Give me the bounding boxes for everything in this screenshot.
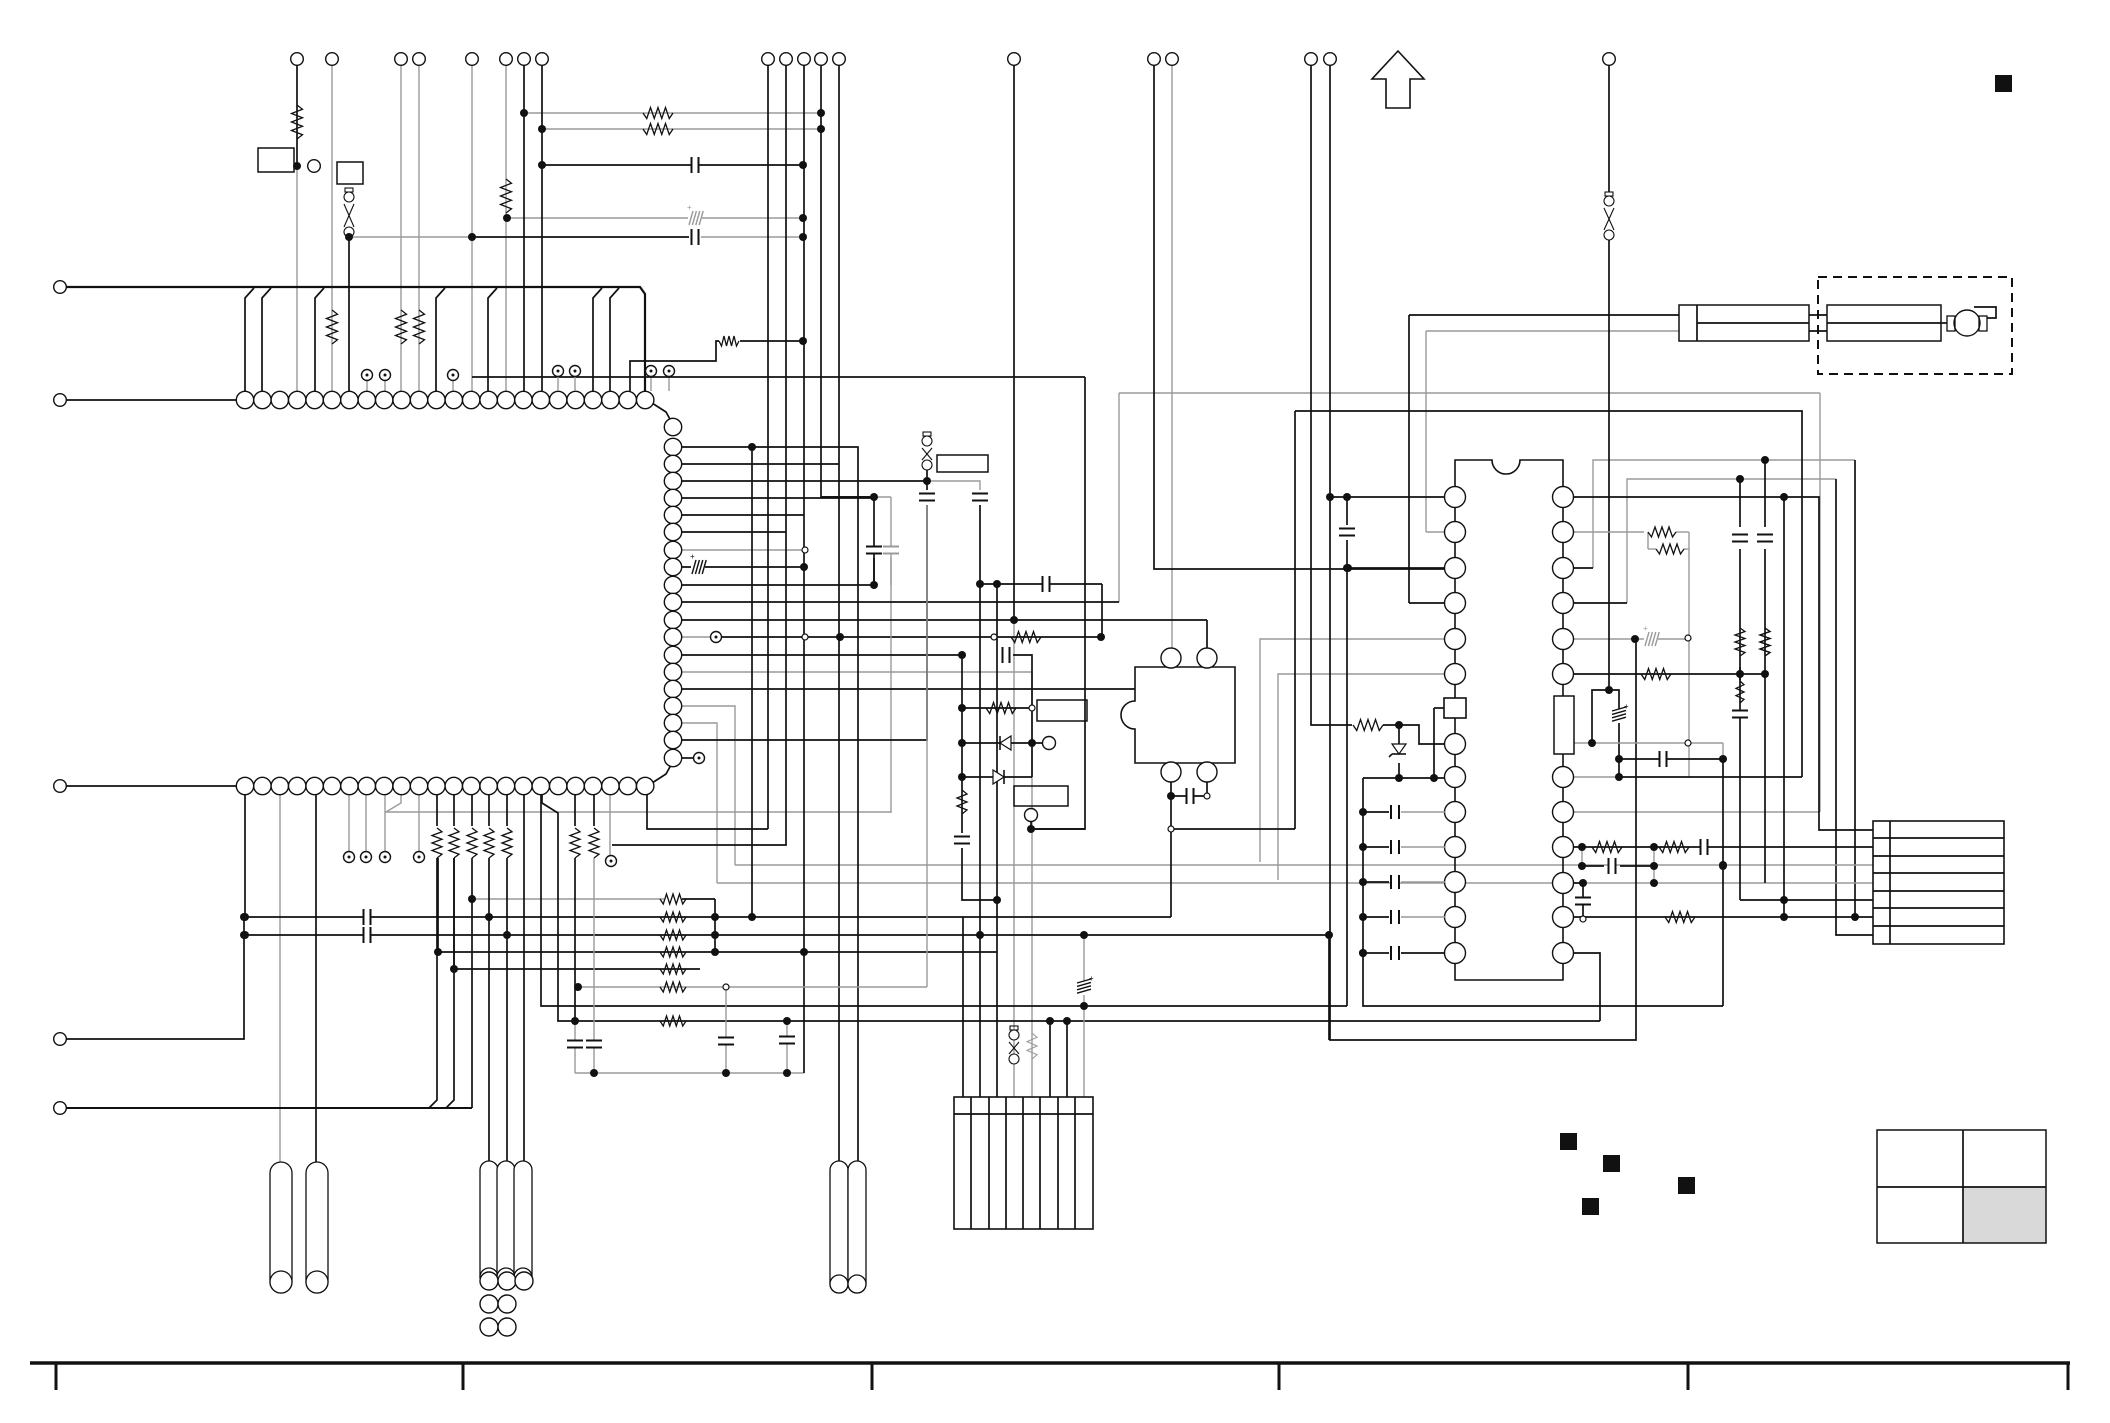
wire pin532 left	[1426, 531, 1445, 533]
resistor below row2	[484, 828, 494, 858]
wire x752	[751, 447, 753, 917]
node open	[1685, 740, 1691, 746]
wire y796	[1171, 795, 1204, 797]
capacitor cylinder CL1	[270, 1162, 292, 1293]
wire p758	[682, 757, 694, 759]
wire y829b	[1031, 828, 1085, 830]
wire x576r	[574, 858, 576, 1021]
wire p620	[682, 619, 1207, 621]
wire pin639R	[1574, 638, 1689, 640]
connector CN middle	[954, 1097, 1093, 1229]
wire railcap R	[1401, 811, 1445, 813]
capacitor cylinder CM1	[830, 1161, 848, 1293]
capacitor rail cap	[1390, 910, 1392, 924]
IC1 right pins	[1553, 487, 1574, 508]
capacitor C656	[1002, 647, 1004, 663]
motor hook	[1974, 307, 1996, 318]
label box R1	[258, 148, 294, 172]
wire pin568L	[1348, 567, 1445, 569]
resistor R847b	[1659, 842, 1689, 853]
bottom tick	[462, 1363, 465, 1390]
resistor bank	[660, 947, 686, 957]
wire v2 top	[1627, 479, 1836, 603]
wire x927c	[926, 740, 928, 987]
ribbon cable B	[1827, 305, 1941, 341]
wire term804	[803, 65, 805, 1073]
test points row1	[362, 370, 373, 381]
wire railcap L	[1363, 916, 1389, 918]
wire p447	[682, 446, 752, 448]
wire y987	[578, 986, 927, 988]
wire col pin706	[682, 706, 735, 865]
wire rr2r2	[1688, 532, 1690, 549]
wire y778	[1363, 777, 1445, 779]
wire x507c	[506, 935, 508, 1161]
wire row4 gray	[717, 882, 1873, 884]
wire pin603R	[1574, 602, 1627, 604]
wire br1609a	[1592, 690, 1609, 743]
wire x1583	[1582, 883, 1584, 919]
wire x507r	[506, 858, 508, 935]
wire gray box top	[1119, 392, 1820, 394]
capacitor C759	[1659, 751, 1661, 767]
wire y480b	[927, 481, 980, 490]
resistor below row2	[467, 828, 477, 858]
wire x962	[961, 655, 963, 833]
svg-text:+: +	[687, 203, 692, 212]
trimmer RV4	[1605, 192, 1613, 196]
wire tp row2c	[384, 795, 386, 851]
tp stub b	[574, 377, 576, 391]
connector column pins	[664, 418, 681, 435]
tp col2	[694, 753, 705, 764]
node open	[1580, 916, 1586, 922]
wire rail1363	[1362, 778, 1364, 953]
junction rail dot	[1359, 843, 1367, 851]
wire x715	[714, 899, 716, 952]
capacitor C866	[1608, 858, 1610, 874]
wire pin953R	[1574, 953, 1600, 1021]
wire term839	[838, 65, 840, 1161]
trimmer RV2	[923, 432, 931, 436]
node open	[991, 634, 997, 640]
resistor below row2	[449, 828, 459, 858]
wire railcap R	[1401, 881, 1445, 883]
bus entry	[262, 288, 271, 391]
connector row2 pins	[236, 777, 253, 794]
wire term821	[821, 65, 874, 497]
capacitor C891	[883, 548, 899, 553]
bus entry	[610, 288, 619, 391]
IC1 left pins	[1445, 487, 1466, 508]
op-amp IC1 body	[1455, 460, 1563, 980]
resistor bank	[660, 894, 686, 904]
bend col-row2	[652, 765, 671, 783]
black square top	[1995, 75, 2012, 92]
bottom tick	[1278, 1363, 1281, 1390]
wire y129 gray	[542, 128, 821, 130]
resistor R1032	[1027, 1033, 1037, 1059]
wire x980b	[979, 935, 981, 1097]
capacitor y165	[691, 157, 693, 173]
bus entry	[315, 288, 324, 391]
wire vcc corner	[1854, 460, 1856, 917]
wire x1723	[1722, 759, 1724, 1006]
terminal near R1	[308, 160, 321, 173]
wire jog401	[386, 795, 401, 812]
resistor row1 a	[327, 310, 338, 344]
wire y341	[740, 340, 803, 342]
wire d1	[962, 742, 1042, 744]
resistor R917	[1665, 912, 1695, 923]
wire term332 gray	[331, 65, 333, 391]
wire y165	[542, 164, 803, 166]
capacitor cylinder CM2	[848, 1161, 866, 1293]
node open	[1168, 826, 1174, 832]
black square marker	[1582, 1198, 1599, 1215]
wire tp row1e	[668, 377, 670, 391]
wire y759	[1619, 758, 1723, 760]
resistor R708	[986, 703, 1016, 714]
ecap GND1084	[1077, 981, 1091, 995]
wire x575c	[574, 1021, 576, 1073]
wire 1740c	[1739, 667, 1741, 680]
node open	[802, 634, 808, 640]
bus left top	[66, 287, 645, 391]
wire x245 up	[244, 795, 246, 917]
wire p740	[682, 505, 927, 740]
capacitor C917	[363, 909, 365, 925]
wire x980	[979, 505, 981, 935]
wire y743gray	[1574, 742, 1723, 744]
resistor R674	[1641, 669, 1671, 680]
wire pin497R	[1574, 497, 1873, 830]
wire p585	[682, 584, 874, 586]
junction rail dot	[1359, 808, 1367, 816]
wire x1765b	[1764, 549, 1766, 883]
wire term1311	[1311, 65, 1352, 725]
connector CN right	[1873, 821, 2004, 944]
wire VREF right	[1574, 811, 1820, 813]
wire pin672	[682, 671, 1032, 673]
capacitor rail cap	[1390, 875, 1392, 889]
wire x1050	[1049, 1021, 1051, 1097]
wire Lwire	[630, 341, 719, 391]
wire railcap R	[1401, 846, 1445, 848]
wire term786	[612, 65, 786, 845]
wire p567	[682, 566, 804, 568]
ecap C639	[1644, 632, 1658, 646]
node open	[1204, 793, 1210, 799]
trimmer RV3	[1010, 1026, 1018, 1030]
wire term419 gray	[418, 65, 420, 391]
wire p532	[682, 531, 786, 533]
resistor below row2	[570, 828, 580, 858]
wire p498	[682, 497, 874, 499]
wire d2	[962, 776, 1032, 778]
dashed box	[1818, 277, 2012, 374]
wire y829L	[647, 795, 768, 829]
wire y1021	[542, 795, 1600, 1021]
wire y952	[438, 951, 997, 953]
wire tp row1d	[650, 377, 652, 391]
wire tp row2e	[609, 795, 611, 855]
bus2 entry	[471, 858, 473, 1108]
wire rr2r	[1676, 531, 1689, 533]
wire x1295	[1294, 411, 1296, 829]
resistor R725	[1353, 720, 1383, 731]
wire y584	[980, 583, 1102, 585]
wire zenerline2	[1398, 763, 1400, 778]
wire term401 gray	[400, 65, 402, 391]
wire x1084	[1083, 935, 1085, 1097]
wire railcap R	[1401, 952, 1445, 954]
link AB2	[1809, 330, 1827, 332]
wire x1085	[1031, 377, 1085, 829]
wire x1740	[1739, 479, 1741, 527]
wire x1582c	[1581, 847, 1583, 866]
resistor below row2	[589, 828, 599, 858]
black square marker	[1678, 1177, 1695, 1194]
wire pin497L	[1330, 496, 1445, 498]
wire pin532 up	[1425, 331, 1427, 532]
capacitor C796	[1186, 788, 1188, 804]
wire x1723g	[1722, 743, 1724, 759]
resistor R1740	[1735, 628, 1745, 656]
wire x857cyl	[856, 446, 858, 448]
wire x349	[348, 240, 350, 391]
resistor y113	[643, 108, 673, 119]
wire term542	[541, 65, 543, 391]
wire rr2link2	[1648, 548, 1656, 550]
table	[1963, 1187, 2046, 1243]
wire row2 stub	[453, 795, 455, 826]
capacitor C593	[586, 1042, 602, 1047]
capacitor cylinder CL2	[306, 1162, 328, 1293]
wire pin744j	[1383, 725, 1445, 744]
wire x316cyl	[315, 795, 317, 1162]
resistor R532a	[1648, 527, 1676, 537]
wire vcc top	[1593, 460, 1855, 568]
cap y866 wire	[1582, 865, 1604, 867]
wire term297 gray	[296, 166, 298, 391]
junction dots	[293, 162, 301, 170]
wire pin532R	[1574, 531, 1644, 533]
bottom tick	[2067, 1363, 2070, 1390]
wire term1154	[1154, 65, 1445, 569]
wire x1102	[1101, 584, 1103, 637]
wire tp row1a	[366, 380, 368, 391]
label D2	[1014, 786, 1068, 806]
capacitor C980	[972, 495, 988, 500]
wire tp stubs row2a	[348, 795, 350, 851]
capacitor y237	[691, 229, 693, 245]
wire y569d	[1347, 567, 1349, 569]
wire tp row1b	[384, 380, 386, 391]
resistor y637	[1011, 632, 1041, 643]
wire y1006a	[541, 795, 1347, 1006]
capacitor C584	[1042, 576, 1044, 592]
resistor row1 b	[396, 310, 407, 344]
capacitor C1583	[1575, 899, 1591, 904]
wire pin847R	[1574, 846, 1873, 848]
resistor R1765b	[1760, 628, 1770, 656]
capacitor Cx962	[954, 838, 970, 843]
wire y829r	[1171, 828, 1295, 830]
wire x1434	[1433, 708, 1435, 778]
wire pin639L	[1260, 639, 1445, 862]
wire y1073 gray	[575, 1072, 804, 1074]
wire y969	[454, 968, 700, 970]
resistor top R1	[292, 105, 303, 139]
wire col pin723	[682, 723, 717, 883]
wire term297 top	[296, 65, 298, 166]
wire x1014 low	[1013, 620, 1015, 1097]
wire br1609b	[1609, 690, 1619, 777]
wire railcap L	[1363, 846, 1389, 848]
junction rail dot	[1359, 878, 1367, 886]
junction rail dot	[1359, 949, 1367, 957]
wire p481	[682, 480, 927, 482]
zener ZD1	[1392, 744, 1406, 754]
wire zenerline	[1398, 725, 1400, 744]
trimmer RV1	[345, 188, 353, 192]
tp mid	[1025, 809, 1038, 822]
capacitor C1740	[1732, 536, 1748, 541]
wire pin777Rb	[1619, 776, 1802, 778]
wire rr2link	[1647, 532, 1649, 549]
capacitor C575	[567, 1042, 583, 1047]
capacitor Cx1347	[1339, 530, 1355, 535]
top terminals	[291, 53, 304, 66]
resistor bank	[660, 930, 686, 940]
resistor row1 c	[414, 310, 425, 344]
wire pin550	[682, 549, 805, 551]
wire x787c	[786, 1021, 788, 1073]
wire term1609b	[1608, 240, 1610, 690]
wire p515	[682, 514, 804, 516]
junction rail dot	[1359, 913, 1367, 921]
wire x280 cyl	[279, 795, 281, 1162]
label box2	[337, 162, 363, 184]
photodetector pins	[1161, 648, 1181, 668]
wire sqline	[1434, 707, 1444, 709]
wire pd-r-dn	[1206, 768, 1208, 796]
wire row3 gray	[735, 864, 1873, 866]
wire term1330	[1330, 65, 1636, 1040]
wire pin603L	[1409, 602, 1445, 604]
resistor bank	[660, 964, 686, 974]
svg-text:+: +	[690, 552, 695, 561]
wire p620c	[1206, 620, 1208, 648]
wire x489r	[488, 858, 490, 917]
bottom tick	[55, 1363, 58, 1390]
wire x1654c	[1653, 847, 1655, 883]
wire y1006b	[1363, 953, 1723, 1006]
bus entry	[436, 288, 445, 391]
bus2 entry	[429, 858, 437, 1108]
wire x962b	[962, 848, 997, 900]
wire y899 gray	[472, 898, 664, 900]
capacitor C787	[779, 1038, 795, 1043]
tp col1	[711, 632, 722, 643]
tp stub a	[557, 377, 559, 391]
wire x489c	[488, 917, 490, 1161]
wire p602	[682, 601, 1119, 603]
capacitor C874a	[866, 548, 882, 553]
wire term506 gray	[505, 65, 507, 391]
wire y237 gray2	[701, 236, 803, 238]
motor M1	[1954, 310, 1980, 336]
wire term524	[523, 65, 525, 391]
label R708	[1037, 700, 1087, 721]
capacitor C927	[919, 495, 935, 500]
wire x874	[873, 497, 875, 585]
capacitor C935	[363, 927, 365, 943]
bus entry	[245, 288, 254, 391]
wire x1784	[1783, 497, 1785, 917]
bottom tick	[871, 1363, 874, 1390]
node open	[723, 984, 729, 990]
wire y497b	[874, 496, 891, 498]
bottom rule	[30, 1361, 2070, 1364]
IC1 right rect	[1554, 696, 1574, 754]
resistor below row2	[502, 828, 512, 858]
wire x874b	[873, 558, 875, 585]
wire x997	[996, 584, 998, 1097]
wire x1689	[1688, 549, 1690, 777]
test points row2	[344, 852, 355, 863]
resistor below row2	[432, 828, 442, 858]
wire y917	[245, 916, 1171, 918]
diode D2	[993, 770, 1004, 784]
wire x1765	[1764, 460, 1766, 527]
bus entry	[593, 288, 602, 391]
resistor R1765	[1760, 628, 1770, 656]
wire row2 stub	[574, 795, 576, 826]
wire term1172	[1171, 65, 1173, 648]
capacitor rail cap	[1390, 805, 1392, 819]
left terminals	[54, 281, 67, 294]
photodetector body	[1121, 667, 1235, 763]
wire x1067	[1066, 1021, 1068, 1097]
wire y377	[472, 376, 1085, 378]
wire gray box left	[1118, 393, 1120, 602]
wire y1040	[1328, 935, 1330, 1040]
wire x593c	[593, 858, 595, 1073]
capacitor C1740b	[1732, 712, 1748, 717]
wire term1609a	[1608, 65, 1610, 192]
wire term472 gray	[471, 65, 473, 391]
resistor y129	[643, 124, 673, 135]
ecap col567	[691, 560, 705, 574]
wire row2 stub	[593, 795, 595, 826]
wire x1740c	[1740, 899, 1873, 901]
wire x891b	[890, 558, 892, 585]
wire pin883R	[1574, 882, 1583, 884]
wire pin674L	[1278, 674, 1445, 880]
wire p655cap	[1013, 655, 1032, 777]
capacitor cylinder CL4	[497, 1161, 515, 1286]
cylinder bottom circles	[480, 1272, 498, 1290]
svg-text:+: +	[1643, 624, 1648, 633]
wire x1032	[1031, 672, 1033, 1097]
wire term1014	[1013, 65, 1015, 620]
wire motor black	[1409, 314, 1679, 316]
resistor bank	[660, 1016, 686, 1026]
wire r708	[962, 707, 1032, 709]
bottom tick	[1687, 1363, 1690, 1390]
